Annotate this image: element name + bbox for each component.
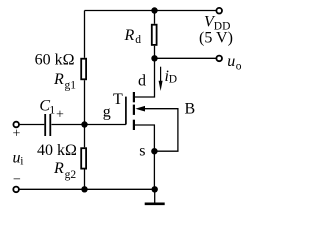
resistor Rd xyxy=(152,25,157,45)
svg-text:40 kΩ: 40 kΩ xyxy=(37,142,77,159)
svg-text:−: − xyxy=(13,173,21,188)
capacitor C1 plates xyxy=(45,114,50,136)
resistor Rg1 xyxy=(81,59,86,80)
svg-text:+: + xyxy=(13,127,21,142)
svg-text:(5 V): (5 V) xyxy=(199,30,233,47)
junction node bottom left xyxy=(81,186,87,192)
wire source lead down xyxy=(135,125,155,189)
svg-text:60 kΩ: 60 kΩ xyxy=(35,52,75,69)
wire capacitor to gate node xyxy=(52,124,85,126)
svg-text:R: R xyxy=(53,71,64,88)
ground xyxy=(145,203,165,206)
svg-text:g: g xyxy=(103,104,111,121)
wire output node to drain xyxy=(135,58,155,97)
transistor T channel middle segment xyxy=(133,105,135,115)
junction node top rail / Rd xyxy=(151,7,157,13)
svg-text:R: R xyxy=(53,160,64,177)
svg-text:d: d xyxy=(135,34,141,46)
junction node output xyxy=(151,55,157,61)
svg-text:R: R xyxy=(124,27,135,44)
wire top rail xyxy=(85,10,217,12)
wire left branch middle xyxy=(84,80,86,147)
wire body loop xyxy=(141,109,178,152)
wire ground stub xyxy=(154,189,156,202)
terminal Vdd xyxy=(216,8,222,14)
transistor T body arrow xyxy=(135,106,145,112)
wire left branch lower xyxy=(84,170,86,190)
wire input to capacitor xyxy=(19,124,44,126)
transistor T gate bar xyxy=(125,97,127,125)
resistor Rg2 xyxy=(81,148,86,168)
svg-text:D: D xyxy=(169,74,177,86)
wire Vdd drop to Rd xyxy=(154,11,156,24)
junction node source xyxy=(151,148,157,154)
svg-text:g1: g1 xyxy=(65,80,77,92)
svg-text:1: 1 xyxy=(49,103,55,117)
svg-text:u: u xyxy=(227,53,235,70)
terminal input plus xyxy=(13,122,19,128)
wire output node to uo terminal xyxy=(155,57,217,59)
transistor T channel top segment xyxy=(133,92,135,102)
svg-text:s: s xyxy=(139,143,145,160)
svg-text:T: T xyxy=(113,91,123,108)
wire left branch upper xyxy=(84,11,86,58)
terminal input minus xyxy=(13,187,19,193)
wire gate lead xyxy=(85,124,126,126)
svg-text:o: o xyxy=(236,61,242,73)
terminal uo xyxy=(216,56,222,62)
transistor T channel bottom segment xyxy=(133,120,135,130)
wire Rd to output node xyxy=(154,46,156,59)
svg-text:i: i xyxy=(20,156,23,168)
junction node gate xyxy=(81,121,87,127)
svg-text:B: B xyxy=(185,101,196,118)
junction node bottom right xyxy=(152,186,158,192)
svg-text:+: + xyxy=(56,108,64,123)
svg-text:d: d xyxy=(138,72,146,89)
wire bottom rail xyxy=(19,188,155,190)
svg-text:g2: g2 xyxy=(65,169,77,181)
current arrow iD xyxy=(159,67,163,91)
